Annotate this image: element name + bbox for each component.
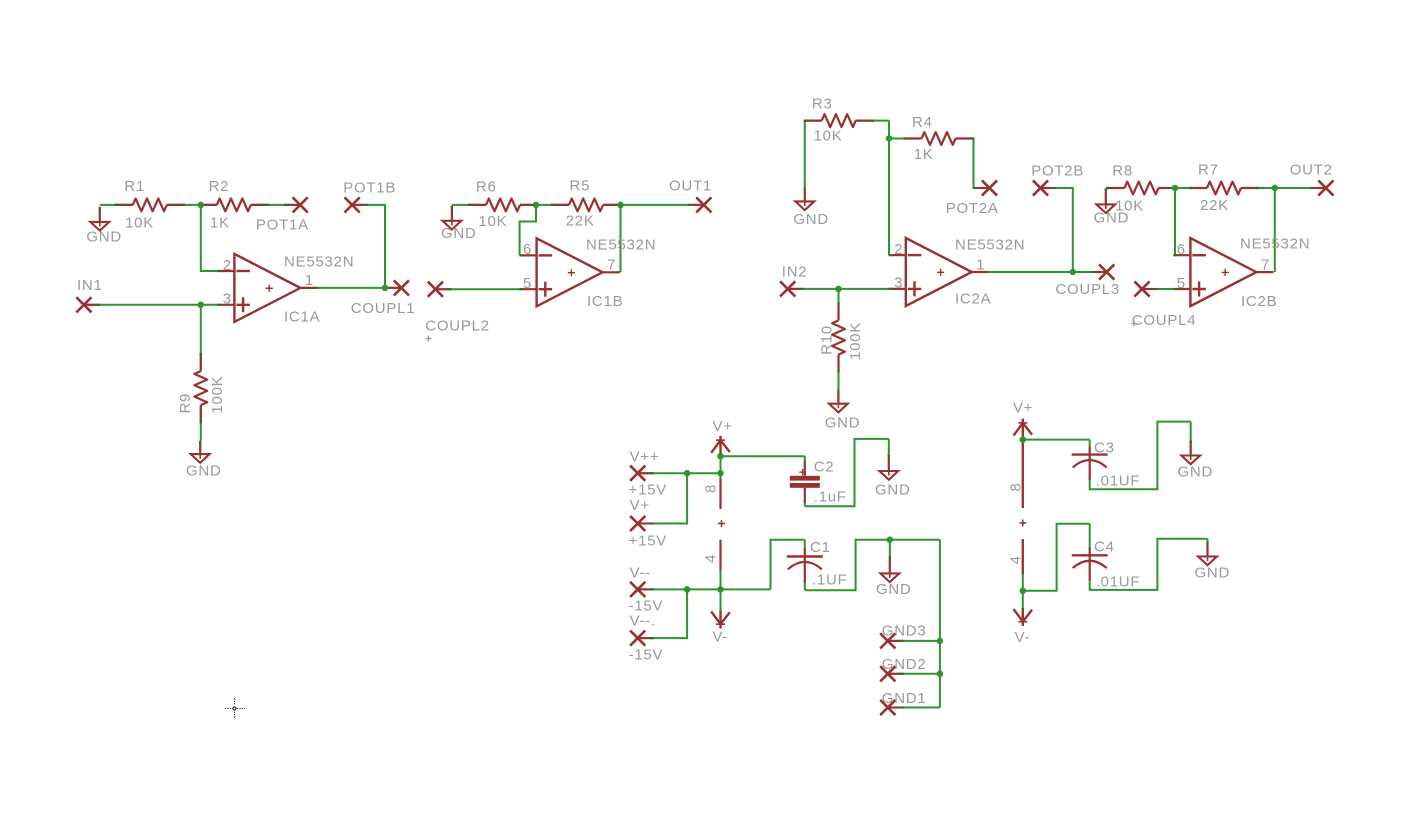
resistor R4	[904, 114, 974, 163]
wire feedback to IC1A pin 2	[201, 205, 218, 271]
svg-text:1: 1	[305, 272, 314, 289]
wire C3 gnd stem	[1190, 422, 1192, 441]
svg-text:22K: 22K	[1200, 197, 1229, 214]
svg-text:-15V: -15V	[629, 647, 664, 664]
ground at C3	[1178, 441, 1214, 481]
label COUPL4	[1131, 312, 1196, 329]
label COUPL3	[1055, 281, 1120, 298]
svg-text:IN2: IN2	[782, 264, 808, 281]
svg-text:R3: R3	[812, 96, 833, 113]
wire IN2 node down to R10	[838, 289, 840, 390]
wire top rail IC2B	[1106, 187, 1326, 189]
label V-- -15V	[629, 565, 664, 615]
op-amp IC1B	[520, 237, 657, 311]
wire V+ column IC2 power upper	[1022, 437, 1024, 508]
junction -15V riser node	[684, 586, 691, 593]
svg-text:8: 8	[1007, 482, 1024, 491]
svg-text:R4: R4	[912, 114, 933, 131]
pad GND3	[880, 633, 904, 648]
svg-text:NE5532N: NE5532N	[586, 237, 656, 254]
ground at C4	[1195, 542, 1231, 582]
wire -15V pad riser	[638, 589, 687, 638]
wire C1 top lead	[804, 540, 806, 550]
pad POT1A	[284, 197, 308, 212]
svg-text:+15V: +15V	[629, 533, 667, 550]
svg-text:COUPL3: COUPL3	[1055, 281, 1120, 298]
wire gnd column	[939, 540, 941, 708]
wire V-- rail	[638, 588, 771, 590]
wire R3 rail	[805, 120, 889, 122]
svg-text:22K: 22K	[566, 213, 595, 230]
capacitor C2	[790, 459, 847, 506]
pad OUT1	[688, 197, 712, 212]
wire IC1A output to COUPL1	[317, 287, 401, 289]
svg-text:.01UF: .01UF	[1096, 574, 1141, 591]
wire IC2A output to COUPL3	[989, 271, 1107, 273]
junction GND2 node	[937, 671, 944, 678]
ground at R10	[825, 389, 861, 431]
svg-text:R9: R9	[177, 393, 194, 414]
wire C1 gnd stem	[889, 540, 891, 557]
svg-text:GND3: GND3	[882, 623, 927, 640]
svg-text:IC2A: IC2A	[955, 291, 991, 308]
resistor R2	[199, 178, 269, 232]
wire COUPL4 to IC2B pin 5	[1142, 288, 1174, 290]
power plus mark IC2 supply	[1019, 520, 1026, 527]
svg-text:GND: GND	[875, 482, 911, 499]
svg-text:COUPL1: COUPL1	[351, 300, 416, 317]
pad V+ +15V	[630, 516, 654, 531]
junction IN1-R9 node	[198, 302, 205, 309]
wire V- to C4	[1023, 524, 1090, 591]
junction V-- node	[717, 586, 724, 593]
wire V++ pad to column	[638, 472, 721, 474]
wire IC2B output up to OUT2 rail	[1274, 188, 1276, 272]
svg-text:1: 1	[976, 256, 985, 273]
svg-text:C4: C4	[1094, 539, 1115, 556]
svg-text:3: 3	[223, 291, 232, 308]
label POT1B	[343, 180, 396, 197]
label COUPL1	[351, 300, 416, 317]
svg-text:GND: GND	[441, 225, 477, 242]
wire IC1B pin 6 stub	[520, 254, 521, 256]
ground at R1	[86, 207, 122, 246]
svg-text:10K: 10K	[125, 215, 154, 232]
svg-text:C1: C1	[810, 539, 831, 556]
capacitor C1	[787, 539, 848, 589]
wire V+ to C2	[721, 455, 805, 457]
svg-text:GND: GND	[825, 415, 861, 432]
label POT2B	[1031, 163, 1084, 180]
resistor R7	[1189, 162, 1259, 215]
resistor R3	[804, 96, 874, 145]
ground at R6	[441, 206, 477, 242]
svg-text:R8: R8	[1112, 163, 1133, 180]
junction V- C4 node	[1020, 588, 1027, 595]
cursor crosshair	[225, 699, 245, 719]
label OUT2	[1290, 162, 1333, 179]
svg-text:GND: GND	[876, 581, 912, 598]
power pin 4 IC2 supply	[1007, 539, 1024, 574]
svg-text:R1: R1	[124, 178, 145, 195]
wire R4 row to POT2A	[889, 139, 990, 189]
junction R7-OUT2 node	[1272, 185, 1279, 192]
svg-text:4: 4	[703, 554, 720, 563]
ground at R9	[186, 441, 222, 479]
label V--. -15V	[629, 613, 664, 664]
junction V++ node	[717, 470, 724, 477]
wire V+ column IC1 power lower	[720, 540, 722, 611]
svg-text:POT2B: POT2B	[1031, 163, 1084, 180]
wire V+ column IC1 power upper	[720, 453, 722, 509]
pad IN2	[780, 281, 804, 296]
resistor R9	[177, 353, 226, 423]
svg-text:7: 7	[607, 257, 616, 274]
label IN2	[782, 264, 808, 281]
junction R6 node	[533, 202, 540, 209]
wire C2 gnd stem	[888, 439, 890, 456]
wire COUPL1 up to POT1B	[352, 205, 385, 288]
pad GND1	[880, 700, 904, 715]
svg-text:2: 2	[894, 241, 903, 258]
wire V+ column IC2 power lower	[1022, 539, 1024, 608]
ground at R8	[1094, 188, 1130, 226]
supply symbol V+ (IC2)	[1013, 400, 1033, 437]
svg-text:GND: GND	[1178, 464, 1214, 481]
svg-text:8: 8	[703, 484, 720, 493]
label GND3	[882, 623, 927, 640]
pad POT2B	[1033, 180, 1057, 195]
pad V--. -15V	[630, 631, 654, 646]
pad GND2	[880, 666, 904, 681]
label OUT1	[669, 178, 712, 195]
svg-text:IN1: IN1	[77, 277, 103, 294]
junction IN2-R10 node	[835, 286, 842, 293]
svg-text:6: 6	[1177, 241, 1186, 258]
wire IN2 to IC2A pin 3	[788, 288, 889, 290]
svg-text:10K: 10K	[814, 128, 843, 145]
label V++ +15V	[629, 449, 667, 499]
wire C4 to GND	[1090, 539, 1208, 590]
ground at C2	[875, 455, 911, 499]
svg-text:GND: GND	[186, 463, 222, 480]
wire IN1 to IC1A pin 3	[84, 304, 218, 306]
svg-text:R5: R5	[570, 178, 591, 195]
supply symbol V- (IC1)	[711, 611, 730, 646]
svg-text:4: 4	[1007, 555, 1024, 564]
wire C4 gnd stem	[1207, 539, 1209, 543]
label POT2A	[946, 200, 999, 217]
wire feedback down to IC2A pin 2	[888, 121, 890, 256]
wire IN1 node down to R9	[200, 305, 202, 441]
svg-text:R7: R7	[1198, 162, 1219, 179]
resistor R6	[468, 179, 538, 231]
svg-text:C3: C3	[1094, 440, 1115, 457]
wire R3 gnd stem	[804, 121, 806, 188]
svg-text:C2: C2	[814, 459, 835, 476]
svg-text:V++: V++	[630, 449, 660, 466]
power plus mark IC1 supply	[718, 520, 725, 527]
pad COUPL1	[385, 280, 409, 295]
svg-text:+15V: +15V	[629, 482, 667, 499]
pad V-- -15V	[630, 582, 654, 597]
pad POT2A	[974, 180, 998, 195]
junction COUPL3 node	[1070, 269, 1077, 276]
wire net top rail IC1B	[452, 204, 704, 206]
svg-text:5: 5	[523, 275, 532, 292]
junction V+ C3 node	[1020, 436, 1027, 443]
label GND1	[882, 690, 927, 707]
svg-text:V+: V+	[630, 497, 650, 514]
svg-text:GND: GND	[1094, 210, 1130, 227]
svg-text:1K: 1K	[914, 146, 934, 163]
capacitor C4	[1072, 539, 1141, 591]
svg-text:R6: R6	[476, 179, 497, 196]
svg-text:GND: GND	[1195, 564, 1231, 581]
svg-text:.1UF: .1UF	[812, 572, 848, 589]
junction GND3 node	[937, 638, 944, 645]
wire GND3 pad	[888, 640, 940, 642]
svg-text:10K: 10K	[478, 213, 507, 230]
svg-text:GND: GND	[793, 211, 829, 228]
svg-text:V-: V-	[1015, 629, 1031, 646]
svg-text:1K: 1K	[210, 215, 230, 232]
svg-text:V+: V+	[1013, 400, 1033, 417]
junction +15V riser node	[684, 470, 691, 477]
label POT1A	[256, 217, 309, 234]
svg-text:IC2B: IC2B	[1241, 293, 1277, 310]
supply symbol V- (IC2)	[1014, 608, 1033, 646]
wire V+ to C3	[1023, 439, 1090, 441]
svg-text:V-: V-	[713, 629, 729, 646]
label V+ +15V	[629, 497, 667, 550]
wire feedback to IC1B pin 6	[520, 205, 536, 256]
resistor R10	[819, 303, 865, 373]
op-amp IC2B	[1173, 235, 1310, 310]
svg-text:100K: 100K	[847, 322, 864, 360]
svg-text:GND2: GND2	[882, 656, 927, 673]
pad V++ +15V	[630, 466, 654, 481]
svg-text:6: 6	[523, 241, 532, 258]
wire V- rail to C1 top	[771, 540, 805, 590]
pad POT1B	[345, 197, 369, 212]
power pin 8 IC1 supply	[703, 478, 721, 509]
power pin 8 IC2 supply	[1007, 443, 1024, 508]
ground at C1	[876, 556, 912, 598]
wire C2 bottom lead	[804, 502, 806, 507]
svg-text:.1uF: .1uF	[814, 489, 847, 506]
svg-text:NE5532N: NE5532N	[1240, 235, 1310, 252]
junction C1 gnd node	[887, 536, 894, 543]
wire COUPL3 up to POT2B	[1041, 188, 1073, 272]
wire IC1B output up to OUT1 rail	[620, 205, 622, 272]
svg-text:R2: R2	[209, 178, 230, 195]
pad COUPL4	[1134, 281, 1158, 296]
resistor R8	[1107, 163, 1177, 215]
svg-text:.01UF: .01UF	[1096, 473, 1141, 490]
svg-text:7: 7	[1261, 256, 1270, 273]
svg-text:NE5532N: NE5532N	[284, 254, 354, 271]
resistor R1	[115, 178, 185, 232]
op-amp IC2A	[889, 237, 1025, 308]
junction R8 node	[1172, 185, 1179, 192]
pad COUPL3	[1091, 264, 1115, 279]
wire C2 top lead	[804, 456, 806, 462]
svg-text:POT2A: POT2A	[946, 200, 999, 217]
wire feedback to IC2B pin 6	[1174, 188, 1176, 255]
svg-text:V--: V--	[630, 565, 651, 582]
op-amp IC1A	[217, 254, 354, 326]
pad OUT2	[1310, 180, 1334, 195]
capacitor C3	[1072, 440, 1141, 490]
wire C2 to GND	[805, 439, 889, 506]
wire GND2 pad	[888, 673, 940, 675]
label GND2	[882, 656, 927, 673]
junction R5-OUT1 node	[617, 202, 624, 209]
svg-text:POT1A: POT1A	[256, 217, 309, 234]
wire net N$1 top rail IC1A	[100, 204, 300, 206]
svg-text:3: 3	[894, 275, 903, 292]
wire COUPL2 to IC1B pin 5	[435, 288, 520, 290]
svg-text:5: 5	[1177, 275, 1186, 292]
junction COUPL1 node	[382, 285, 389, 292]
pad COUPL2	[428, 282, 452, 297]
wire C3 to GND	[1090, 422, 1191, 490]
wire C4 lead	[1089, 524, 1091, 548]
wire C1 bottom lead	[804, 581, 806, 590]
svg-text:R10: R10	[819, 325, 836, 355]
wire V+ pad riser	[638, 473, 687, 523]
ground at R3	[793, 187, 829, 228]
junction V+ C2 node	[717, 453, 724, 460]
junction R3-R4 node	[886, 135, 893, 142]
wire GND1 pad	[888, 707, 940, 709]
power pin 4 IC1 supply	[703, 540, 721, 571]
label COUPL2	[425, 318, 490, 342]
svg-text:100K: 100K	[209, 376, 226, 414]
svg-text:OUT2: OUT2	[1290, 162, 1333, 179]
svg-text:COUPL2: COUPL2	[425, 318, 490, 335]
svg-text:IC1A: IC1A	[284, 309, 320, 326]
svg-text:GND1: GND1	[882, 690, 927, 707]
svg-text:2: 2	[223, 257, 232, 274]
wire C1 bottom to gnd rail	[805, 540, 940, 591]
label IN1	[77, 277, 103, 294]
junction R1-R2 node	[198, 202, 205, 209]
svg-text:V--.: V--.	[630, 613, 656, 630]
resistor R5	[551, 178, 621, 230]
svg-text:COUPL4: COUPL4	[1132, 312, 1197, 329]
wire C3 lead	[1089, 440, 1091, 447]
svg-text:NE5532N: NE5532N	[955, 237, 1025, 254]
svg-text:V+: V+	[713, 418, 733, 435]
svg-text:GND: GND	[86, 229, 122, 246]
svg-text:POT1B: POT1B	[343, 180, 396, 197]
svg-text:IC1B: IC1B	[587, 293, 623, 310]
svg-text:OUT1: OUT1	[669, 178, 712, 195]
supply symbol V+ (IC1)	[711, 418, 733, 454]
pad IN1	[76, 297, 100, 312]
